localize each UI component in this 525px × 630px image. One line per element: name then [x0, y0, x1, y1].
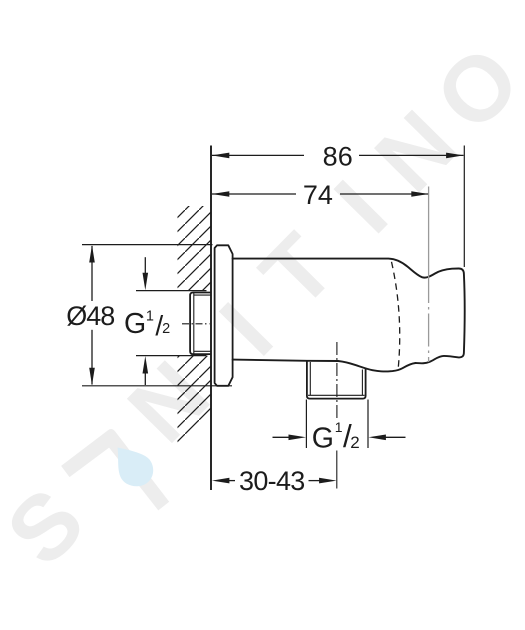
watermark letter T	[256, 229, 339, 312]
svg-text:2: 2	[162, 321, 170, 337]
svg-text:2: 2	[350, 433, 359, 452]
watermark letter O	[432, 43, 523, 134]
watermark letter N (second)	[374, 110, 457, 193]
dimension G1/2 left	[136, 290, 207, 292]
holder body outline	[233, 259, 465, 372]
watermark letter A (chevron logo mark)	[61, 429, 169, 510]
svg-text:30-43: 30-43	[239, 466, 305, 496]
inlet nipple (behind wall)	[190, 293, 211, 355]
svg-text:1: 1	[335, 419, 343, 435]
nipple center line	[182, 323, 210, 325]
watermark letter I	[219, 302, 273, 356]
dimension 86	[212, 154, 464, 156]
watermark letter N	[127, 360, 210, 443]
dimension 30-43	[229, 480, 235, 482]
outlet center line	[336, 342, 338, 420]
watermark letter S	[2, 485, 87, 570]
wall line	[210, 146, 212, 491]
dimension 74	[212, 193, 428, 195]
74 gray center line	[428, 187, 430, 271]
svg-text:Ø48: Ø48	[66, 301, 114, 331]
svg-text:1: 1	[146, 308, 154, 324]
watermark blue drop	[118, 448, 154, 487]
svg-text:74: 74	[303, 180, 333, 210]
dimension G1/2 bottom	[305, 400, 307, 449]
svg-text:G: G	[312, 423, 334, 455]
flange (escutcheon)	[215, 245, 233, 385]
watermark letter I (second)	[334, 180, 388, 234]
svg-text:86: 86	[323, 142, 353, 172]
dashed transition curve	[392, 262, 400, 371]
dimension Ø48	[82, 244, 213, 246]
wall hatching lower	[178, 356, 212, 447]
wall hatching upper	[178, 206, 212, 290]
svg-text:G: G	[124, 308, 146, 340]
86 right extension line	[463, 146, 465, 268]
outlet (bottom nipple)	[307, 361, 366, 399]
